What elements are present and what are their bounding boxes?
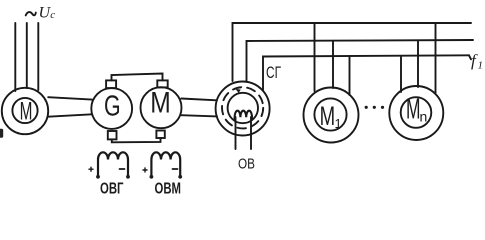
label OVM [155,181,182,198]
arrow rotation marker on dashed circle [235,89,241,93]
wire bus 2 [247,40,474,81]
wire M1 phase c [349,56,351,95]
wire shaft M-SG top [181,99,217,101]
svg-text:1: 1 [478,60,484,72]
arrow tick bus 3 end [469,55,471,59]
motor Mn outer [389,86,443,140]
wire shaft M-G top [48,97,92,99]
svg-text:c: c [50,9,55,21]
wire supply phase 3 [37,23,39,90]
motor M (of G-M set) [141,87,182,128]
wire Mn phase a [400,57,402,92]
wire Mn phase b [417,41,419,87]
plus sign OVM [143,168,147,172]
label OV [238,156,255,173]
wire M1 phase a [314,23,316,91]
node dots ellipsis [365,106,385,109]
svg-text:ОВ: ОВ [238,156,255,173]
terminal G bottom [108,131,117,139]
wire SG field lead left [235,117,237,149]
wire supply phase 1 [14,23,16,91]
svg-text:G: G [104,91,121,123]
node OVM terminal dots [150,175,183,179]
wire Mn phase c [435,23,437,93]
minus sign OVM [173,168,178,170]
wire shaft M-SG bottom [181,115,217,116]
label SG [266,63,281,82]
terminal G top [106,80,116,88]
SG stator dashed circle [222,87,263,128]
motor M (drive motor, left) [2,88,48,134]
svg-text:ОВГ: ОВГ [100,181,124,197]
inductor OVM winding [151,152,180,176]
generator G [91,88,132,129]
wire armature loop bottom [112,138,161,142]
terminal M top [157,80,167,87]
SG field winding [235,111,252,120]
minus sign OVG [120,168,125,170]
plus sign OVG [89,167,93,171]
label OVG [100,181,124,198]
svg-text:ОВМ: ОВМ [155,181,182,197]
SG rotor inner circle [228,93,258,123]
motor Mn inner [401,97,432,128]
node OVG terminal dots [96,175,130,179]
svg-text:n: n [420,109,428,125]
svg-text:М: М [406,94,421,126]
wire bus 1 (top) [233,23,472,81]
scan artifact left edge [0,129,3,138]
wire bus 3 [263,55,469,90]
wire shaft M-G bottom [48,114,92,116]
synchronous generator SG outer [216,82,270,136]
wire M1 phase b [332,41,334,88]
motor M1 inner [314,98,346,130]
svg-text:M: M [150,86,171,119]
wire SG field lead right [250,117,252,149]
wire armature loop top [112,74,163,81]
wire supply phase 2 [26,23,28,88]
node Uc supply label [26,12,36,15]
terminal M bottom [156,131,164,139]
inductor OVG winding [98,152,128,176]
svg-text:1: 1 [335,116,342,131]
label f1 [471,51,483,72]
svg-text:М: М [320,101,336,131]
motor M1 outer [304,88,359,143]
svg-text:M: M [20,98,33,126]
svg-text:СГ: СГ [266,63,281,82]
